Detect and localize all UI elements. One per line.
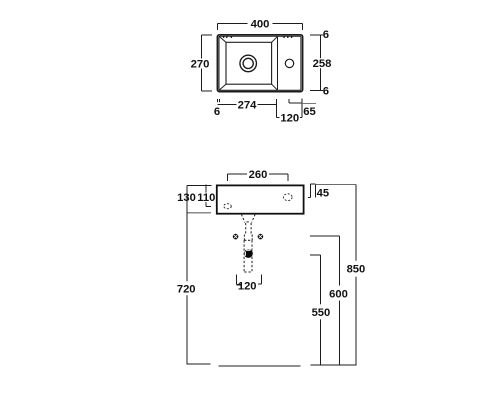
floor line right — [311, 364, 357, 366]
svg-text:45: 45 — [317, 187, 329, 199]
floor line middle — [218, 365, 300, 367]
dimension 720 (left vertical) — [186, 185, 188, 364]
dimension 130 (left of front view) — [187, 184, 211, 186]
floor line left — [186, 363, 210, 365]
dimension 274 (bottom) — [218, 99, 277, 118]
label 130 — [177, 193, 196, 203]
bolt right — [258, 234, 264, 240]
gray shelf line — [188, 212, 211, 214]
mounting hole right (dashed ellipse) — [284, 194, 293, 201]
svg-text:400: 400 — [251, 19, 270, 31]
dimension 120 (bottom bracket) — [277, 98, 302, 117]
dimension 600 (vertical with hook) — [310, 236, 340, 365]
pipe coupling (dashed) — [244, 235, 252, 241]
dimension 270 (left) — [201, 35, 212, 91]
dimension 550 (vertical with hook) — [310, 255, 321, 365]
drain pipe upper section (dashed) — [246, 223, 251, 234]
sink inner rim rect — [219, 36, 301, 90]
gray reference line to 850 — [316, 183, 356, 185]
svg-text:65: 65 — [303, 106, 316, 118]
dimension 120 hooks (below pipe) — [236, 275, 261, 285]
svg-text:110: 110 — [197, 192, 215, 204]
drain outer circle — [240, 55, 257, 72]
svg-text:6: 6 — [323, 85, 329, 97]
overflow tick marks left — [223, 36, 232, 38]
svg-text:550: 550 — [312, 307, 331, 319]
dimension 6/258/6 (right) — [310, 35, 323, 91]
svg-text:850: 850 — [347, 264, 366, 276]
dimension 45 bracket (right of front view) — [308, 184, 316, 198]
overflow tick marks right — [283, 36, 292, 38]
dimension 65 (bottom right) — [289, 99, 302, 103]
svg-text:258: 258 — [313, 58, 332, 70]
label 110 — [198, 193, 215, 203]
tap hole circle — [285, 59, 293, 67]
svg-text:6: 6 — [214, 106, 220, 118]
drain inner circle — [243, 58, 253, 68]
svg-text:120: 120 — [280, 112, 299, 124]
basin floor rect — [226, 42, 272, 84]
svg-text:600: 600 — [329, 288, 348, 300]
basin bevel diagonals — [219, 36, 278, 90]
drain outlet ball — [244, 249, 253, 258]
sink outer rim rect — [217, 35, 302, 92]
svg-text:270: 270 — [191, 59, 210, 71]
svg-text:720: 720 — [177, 283, 196, 295]
dimension 110 bracket — [206, 184, 211, 206]
bolt left — [233, 234, 239, 240]
svg-text:274: 274 — [238, 99, 258, 111]
basin front rect — [217, 185, 304, 213]
basin divider line — [277, 36, 279, 90]
dimension 6 double tick (bottom left) — [217, 99, 220, 102]
drain pipe funnel (dashed) — [241, 214, 255, 222]
svg-text:6: 6 — [323, 29, 329, 41]
drain pipe lower section (dashed) — [244, 240, 252, 272]
mounting hole left (dashed ellipse) — [224, 204, 232, 209]
dimension 260 (above front view) — [228, 174, 289, 181]
svg-text:120: 120 — [238, 280, 257, 292]
dimension 850 (right vertical) — [355, 184, 357, 365]
svg-text:260: 260 — [249, 169, 268, 181]
dimension 400 (top) — [218, 24, 303, 30]
